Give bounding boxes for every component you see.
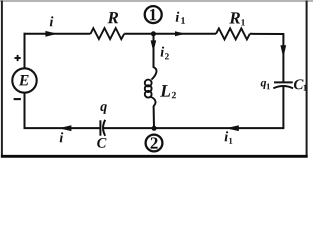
- junction dot top: [151, 31, 156, 36]
- inductor L2: [145, 67, 157, 106]
- node 1 digit: [150, 9, 156, 20]
- arrow down right side: [280, 45, 286, 57]
- label q: [100, 104, 106, 114]
- wire R to R1: [124, 33, 216, 35]
- label i2 subscript: [165, 53, 169, 59]
- label C: [97, 138, 106, 148]
- label i bottom-left: [60, 132, 64, 142]
- label L2 subscript: [172, 92, 176, 98]
- junction dot bottom: [152, 126, 157, 131]
- label q1 subscript: [267, 83, 270, 89]
- resistor R: [91, 28, 125, 39]
- label i1 bottom-right: [225, 131, 229, 141]
- node 2 circle: [146, 135, 163, 152]
- source E letter: [19, 75, 29, 85]
- label R1 subscript: [241, 19, 244, 25]
- minus sign: [14, 98, 21, 100]
- node 1 circle: [145, 6, 162, 23]
- wire R1 to top-right corner: [250, 33, 284, 35]
- label i1 bottom-right subscript: [229, 138, 232, 144]
- label L2: [160, 85, 170, 96]
- wire bottom-left to capacitor C: [24, 127, 101, 129]
- arrow i bottom-left: [59, 125, 72, 131]
- label R: [108, 12, 119, 23]
- capacitor C plate right curved: [103, 120, 105, 136]
- capacitor C plate left: [99, 120, 101, 135]
- resistor R1: [216, 28, 250, 39]
- label C1 subscript: [303, 85, 306, 91]
- capacitor C1 plate bottom curved: [273, 86, 293, 88]
- label i top-left: [50, 16, 54, 26]
- label q1: [261, 81, 266, 89]
- label i2: [161, 47, 165, 57]
- label C1: [294, 79, 304, 89]
- border frame: [0, 1, 313, 158]
- wire right side lower: [282, 86, 284, 128]
- node 2 digit: [151, 137, 158, 148]
- arrow i top-left: [45, 31, 57, 37]
- wire node1 junction to inductor: [153, 34, 155, 68]
- arrow i1 bottom-right: [226, 125, 239, 131]
- source E circle: [12, 68, 36, 92]
- wire left side: [24, 33, 26, 129]
- label R1: [229, 12, 240, 23]
- wire capacitor C to bottom-right: [103, 127, 284, 129]
- capacitor C1 plate top: [274, 81, 293, 83]
- wire inductor to node2 junction: [153, 106, 155, 128]
- arrow i2: [151, 40, 157, 52]
- label i1 top subscript: [181, 17, 185, 23]
- arrow i1 top: [175, 31, 186, 36]
- plus sign: [15, 55, 21, 61]
- wire right side upper: [282, 33, 284, 82]
- label i1 top: [176, 12, 180, 22]
- wire top-left corner to resistor R: [24, 33, 91, 35]
